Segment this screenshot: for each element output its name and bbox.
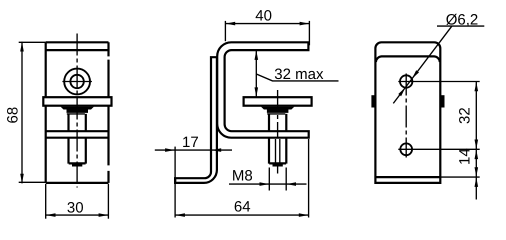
rear view back plate top edge (376, 56, 440, 62)
rear view outline (375, 42, 440, 183)
svg-text:40: 40 (255, 8, 272, 25)
dimension 64 right arrow (299, 213, 309, 217)
front view right side edge (107, 42, 109, 183)
dimension 40 right arrow (300, 22, 310, 26)
svg-text:68: 68 (5, 107, 22, 124)
svg-text:30: 30 (67, 199, 84, 216)
dimension M8 left extension line (268, 168, 270, 191)
side view screw bottom end (269, 163, 286, 165)
dimension 32 bottom arrow (475, 140, 479, 150)
rear view left pad ear (filled) (371, 95, 375, 107)
dimension 17 line (155, 149, 232, 151)
side view upper screw shaft (269, 114, 286, 131)
front view hole outer circle (washer) (64, 69, 90, 95)
svg-text:17: 17 (182, 134, 199, 151)
rear view top hole (400, 75, 412, 87)
rear view bottom hole horizontal centerline / extension (398, 148, 479, 150)
svg-text:32 max: 32 max (274, 66, 324, 83)
dimension 30 right arrow (99, 213, 109, 217)
side view lower screw body (269, 138, 286, 164)
dimension 14 top arrow (475, 150, 479, 160)
dimension 68 top arrow (20, 42, 24, 52)
side view screw centerline lower segment (277, 166, 279, 174)
rear view foot top line (375, 176, 440, 178)
dimension 30 left arrow (46, 213, 56, 217)
rear view top hole horizontal centerline / extension (398, 81, 479, 83)
dia 6,2 leader upper arrow (412, 70, 419, 79)
side view left plate (back plate + foot) L cross-section (175, 57, 217, 183)
dimension 40 left extension line (224, 21, 226, 41)
front view middle plate bottom line (46, 137, 109, 139)
dimension 17 extension line (174, 147, 176, 218)
dimension 14 bottom arrow (475, 167, 479, 177)
front view upper screw shaft (69, 114, 86, 131)
dimension M8 right extension line (285, 168, 287, 191)
rear view foot extension line to dimension 14 (440, 176, 479, 178)
dimension 68 bottom arrow (20, 174, 24, 184)
rear view bottom hole (400, 143, 412, 155)
svg-text:64: 64 (234, 199, 251, 216)
dimension 32max vertical line (255, 50, 257, 97)
side view cone (filled) (261, 107, 295, 113)
front view top arm edge (top line) (46, 41, 109, 43)
side view screw centerline (277, 90, 279, 139)
side view right plate (arm + spine + middle plate) Z cross-section (217, 42, 309, 137)
dimension 32max leader (256, 74, 338, 81)
front view screw shaft top line (67, 113, 85, 115)
dimension 32max bottom arrow (255, 87, 259, 97)
dia 6,2 underline shelf (437, 25, 484, 27)
dia 6,2 leader lower arrow (398, 88, 405, 97)
dimension 32 top arrow (475, 82, 479, 92)
side view lower screw thread lines (276, 139, 280, 163)
front view hole horizontal crosshair (62, 81, 92, 83)
dimension 30 right extension line (107, 184, 109, 219)
front view pad plate (43, 97, 111, 106)
side view foot left end edge (174, 178, 176, 183)
dimension 40 line (225, 23, 309, 25)
dimension M8 left arrow (260, 182, 270, 186)
svg-text:M8: M8 (232, 167, 253, 184)
dimension 30 left extension line (45, 184, 47, 219)
front view arm bottom line (46, 49, 109, 51)
front view cone (filled) (61, 107, 95, 113)
front view left side edge (45, 42, 47, 183)
svg-text:14: 14 (457, 148, 474, 165)
front view bottom edge (46, 182, 109, 184)
side view screw shaft top line (267, 113, 285, 115)
dimension 17 left arrow (165, 148, 175, 152)
svg-text:Ø6,2: Ø6,2 (446, 11, 479, 28)
dimension M8 right arrow (287, 182, 297, 186)
side view pad plate (244, 97, 312, 106)
dimension 30 line (46, 214, 109, 216)
rear view right pad ear (filled) (440, 95, 444, 107)
front view lower screw body (69, 138, 86, 164)
dimension 40 right extension line (308, 21, 310, 45)
dimension 64 left arrow (175, 213, 185, 217)
front view centerline (76, 34, 78, 188)
dimension 40 left arrow (226, 22, 236, 26)
dimension 32max top arrow (255, 50, 259, 60)
dia 6,2 leader line (393, 26, 452, 103)
dimension 68 bottom extension line (19, 181, 46, 183)
front view middle plate top line (46, 130, 109, 132)
front view screw bottom end (69, 163, 86, 165)
dimension 64 line (175, 214, 309, 216)
dimension 68 line (21, 42, 23, 184)
svg-text:32: 32 (457, 107, 474, 124)
dimension 64 right extension line (308, 139, 310, 218)
rear view vertical centerline (405, 74, 407, 158)
dimension 14 below arrow (475, 177, 479, 187)
front view hole inner circle (70, 75, 83, 88)
dimension M8 line (229, 183, 307, 185)
dimension 68 top extension line (19, 41, 46, 43)
dimension 32/14 vertical line (475, 82, 477, 200)
dimension 17 right arrow (212, 148, 222, 152)
